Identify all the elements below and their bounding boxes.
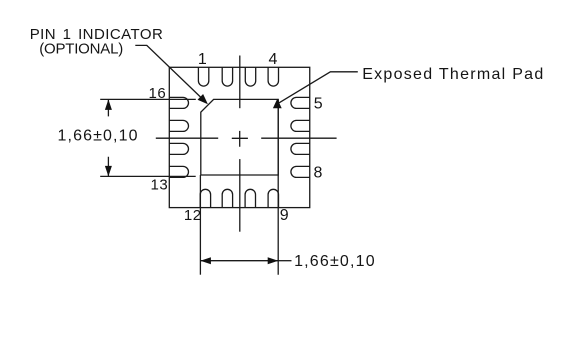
left dimension bottom extension line [100, 175, 196, 177]
exposed thermal pad leader [279, 72, 358, 103]
pin 1 [198, 67, 208, 86]
svg-text:9: 9 [280, 207, 289, 224]
pin 1 indicator leader [135, 45, 206, 103]
pin 3 [245, 67, 255, 86]
pin 15 [169, 120, 188, 131]
horizontal centerline right segment [261, 137, 336, 139]
bottom dimension line [200, 260, 278, 262]
pin 4 [268, 67, 278, 86]
bottom dimension leader stub [278, 260, 291, 262]
pin 5 [291, 97, 310, 108]
horizontal centerline left segment [156, 137, 218, 139]
svg-text:1: 1 [198, 51, 207, 68]
svg-text:13: 13 [151, 177, 169, 194]
bottom dimension left extension line [199, 175, 201, 275]
center mark cross [232, 131, 248, 147]
vertical centerline bottom segment [239, 159, 241, 232]
pin 10 [245, 189, 255, 207]
bottom dimension arrow right [268, 257, 279, 264]
svg-text:1,66±0,10: 1,66±0,10 [294, 253, 376, 270]
pin 11 [222, 189, 232, 207]
left dimension arrow up [105, 99, 112, 110]
left dimension line [107, 99, 109, 176]
bottom dimension arrow left [200, 257, 211, 264]
left dimension arrow down [105, 166, 112, 177]
pin 9 [268, 189, 278, 207]
pin 13 [169, 166, 188, 177]
package outline [169, 67, 309, 207]
svg-text:(OPTIONAL): (OPTIONAL) [39, 41, 123, 58]
svg-text:4: 4 [269, 51, 278, 68]
bottom dimension right extension line [277, 99, 279, 274]
pin 1 indicator leader arrowhead [198, 94, 208, 104]
svg-text:8: 8 [314, 165, 323, 182]
svg-text:12: 12 [184, 207, 202, 224]
svg-text:Exposed Thermal Pad: Exposed Thermal Pad [362, 66, 544, 83]
pin 6 [291, 120, 310, 131]
svg-text:1,66±0,10: 1,66±0,10 [58, 127, 139, 144]
exposed thermal pad leader arrowhead [273, 99, 282, 108]
vertical centerline top segment [239, 56, 241, 109]
svg-text:5: 5 [314, 96, 323, 113]
left dimension top extension line [100, 98, 196, 100]
pin 7 [291, 143, 310, 154]
exposed thermal pad outline with pin1 chamfer [201, 99, 278, 175]
svg-text:16: 16 [149, 85, 167, 102]
pin 14 [169, 143, 188, 154]
pin 8 [291, 166, 310, 177]
pin 2 [222, 67, 232, 86]
pin 12 [200, 189, 210, 207]
pin 16 [169, 97, 188, 108]
